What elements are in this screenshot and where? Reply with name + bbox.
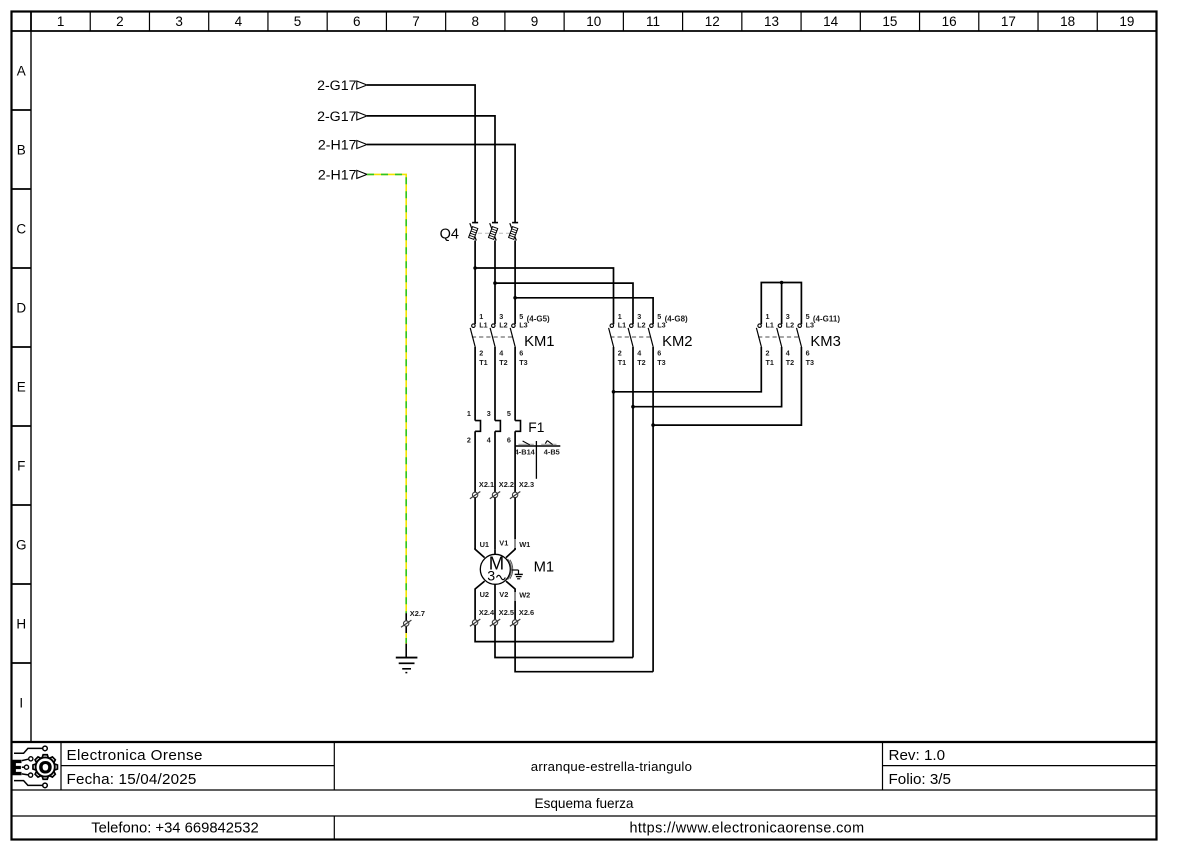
- svg-text:3: 3: [487, 409, 491, 418]
- svg-text:U1: U1: [480, 540, 489, 549]
- wire terminal X2.2 to motor: [494, 498, 496, 550]
- KM1 pin labels 5 L3: [519, 312, 527, 330]
- svg-text:14: 14: [823, 14, 839, 29]
- wire terminal X2.3 to motor: [514, 498, 516, 550]
- svg-text:T2: T2: [499, 358, 507, 367]
- svg-text:17: 17: [1001, 14, 1016, 29]
- svg-text:4: 4: [786, 349, 790, 358]
- svg-text:T1: T1: [479, 358, 487, 367]
- svg-text:arranque-estrella-triangulo: arranque-estrella-triangulo: [531, 759, 692, 774]
- KM1 pole 2 contact (pins 3/L2-4/T2): [490, 324, 495, 347]
- svg-text:F: F: [17, 458, 25, 473]
- title block frame: [12, 742, 1157, 840]
- KM1 pole 1 contact (pins 1/L1-2/T1): [470, 324, 475, 347]
- svg-text:V2: V2: [499, 590, 508, 599]
- wire KM1 pole 2 output to F1: [494, 347, 496, 421]
- wire 2-H17 to Q4 pole 3: [367, 145, 515, 223]
- svg-text:X2.4: X2.4: [479, 608, 495, 617]
- KM3 pin labels 2 T1: [766, 349, 774, 368]
- wire motor terminal V1: [494, 549, 496, 554]
- svg-text:T2: T2: [637, 358, 645, 367]
- svg-text:16: 16: [942, 14, 957, 29]
- svg-text:12: 12: [705, 14, 720, 29]
- wire gray stub W1: [514, 539, 516, 548]
- terminal X2.5: [490, 608, 514, 626]
- svg-text:E: E: [17, 379, 26, 394]
- svg-text:L1: L1: [618, 320, 626, 329]
- svg-text:X2.6: X2.6: [519, 608, 534, 617]
- motor PE double arc: [508, 559, 513, 580]
- terminal X2.2: [490, 480, 514, 499]
- svg-text:10: 10: [586, 14, 601, 29]
- svg-text:C: C: [16, 221, 26, 236]
- KM2 pole 3 contact (pins 5/L3-6/T3): [648, 324, 653, 347]
- svg-text:T3: T3: [806, 358, 814, 367]
- KM2 pole 2 contact (pins 3/L2-4/T2): [628, 324, 633, 347]
- KM3 pin labels 6 T3: [806, 349, 814, 368]
- svg-text:KM2: KM2: [662, 334, 692, 350]
- svg-text:9: 9: [531, 14, 539, 29]
- svg-text:L2: L2: [786, 320, 794, 329]
- svg-text:19: 19: [1119, 14, 1134, 29]
- svg-text:6: 6: [519, 349, 523, 358]
- svg-text:X2.5: X2.5: [499, 608, 514, 617]
- svg-text:T1: T1: [766, 358, 774, 367]
- motor PE earth symbol: [512, 570, 523, 579]
- svg-text:F1: F1: [528, 420, 544, 435]
- svg-text:T3: T3: [657, 358, 665, 367]
- KM2 pin labels 4 T2: [637, 349, 645, 368]
- connector reference 2-G17 (phase L2): [317, 109, 367, 125]
- svg-text:X2.1: X2.1: [479, 480, 494, 489]
- thermal overload relay F1: [467, 409, 560, 479]
- KM3 pin labels 4 T2: [786, 349, 794, 368]
- wire motor terminal V2: [494, 584, 496, 620]
- svg-text:B: B: [17, 142, 26, 157]
- wire terminal X2.4 to KM2/KM3 pole 1: [475, 625, 613, 641]
- svg-text:L2: L2: [499, 320, 507, 329]
- KM1 pin labels 1 L1: [479, 312, 487, 330]
- svg-text:V1: V1: [499, 539, 508, 548]
- motor M1 (3-phase): [480, 553, 554, 585]
- Q4 pole 2 contact: [488, 223, 498, 241]
- KM2 mechanical linkage (dashed): [610, 336, 650, 338]
- terminal X2.6: [510, 608, 534, 626]
- svg-text:4: 4: [499, 349, 503, 358]
- wire KM3 pole 2 to bridge: [781, 283, 783, 325]
- svg-text:7: 7: [412, 14, 420, 29]
- contactor KM1 (3-pole): [470, 312, 554, 367]
- wire KM2 pole 2 output: [632, 347, 634, 658]
- F1 heater element pole 1 (pins 1-2): [475, 421, 480, 432]
- wire F1 pole 1 to terminal X2.1: [474, 431, 476, 492]
- svg-text:5: 5: [294, 14, 302, 29]
- KM1 pin labels 4 T2: [499, 349, 507, 368]
- svg-text:6: 6: [353, 14, 361, 29]
- terminal X2.4: [470, 608, 495, 626]
- svg-text:2-H17: 2-H17: [318, 168, 357, 184]
- wire motor terminal W2: [506, 581, 515, 620]
- svg-text:KM1: KM1: [524, 334, 554, 350]
- wire branch phase L3 to KM2 pole 3: [515, 298, 653, 324]
- svg-text:4: 4: [235, 14, 243, 29]
- svg-text:T3: T3: [519, 358, 527, 367]
- circuit breaker Q4 (3-pole motor protection): [440, 223, 518, 325]
- svg-text:8: 8: [472, 14, 480, 29]
- svg-text:Rev: 1.0: Rev: 1.0: [889, 747, 946, 764]
- KM2 pin labels 1 L1: [618, 312, 626, 330]
- KM3 pole 1 contact (pins 1/L1-2/T1): [756, 324, 761, 347]
- KM1 pin labels 2 T1: [479, 349, 487, 368]
- connector reference 2-H17 (PE): [318, 168, 367, 184]
- svg-text:4-B5: 4-B5: [544, 448, 560, 457]
- svg-text:X2.7: X2.7: [410, 609, 425, 618]
- node junction phase L1 below Q4: [473, 266, 477, 270]
- svg-text:W2: W2: [519, 591, 530, 600]
- svg-text:Esquema fuerza: Esquema fuerza: [535, 796, 634, 811]
- svg-text:Folio: 3/5: Folio: 3/5: [889, 771, 951, 788]
- KM2 pin labels 3 L2: [637, 312, 645, 330]
- F1 aux contact glyph 4-B5: [541, 441, 556, 445]
- svg-text:L1: L1: [479, 320, 487, 329]
- terminal X2.1: [470, 480, 494, 499]
- KM3 pole 2 contact (pins 3/L2-4/T2): [777, 324, 782, 347]
- wire terminal X2.1 to motor: [474, 498, 476, 550]
- wire terminal X2.6 to KM2/KM3 pole 3: [515, 625, 653, 672]
- wire gray stub W2: [514, 592, 516, 601]
- wire KM3 star-point bridge: [761, 283, 801, 325]
- svg-text:2: 2: [618, 349, 622, 358]
- svg-text:1: 1: [467, 409, 471, 418]
- wire motor terminal U1: [475, 548, 485, 557]
- terminal X2.3: [510, 480, 534, 499]
- svg-text:3: 3: [175, 14, 183, 29]
- wire PE green/yellow from 2-H17 down to terminal X2.7: [367, 174, 406, 613]
- wire Q4 pole 3 output: [514, 241, 516, 325]
- svg-text:18: 18: [1060, 14, 1075, 29]
- node junction phase L2 below Q4: [493, 281, 497, 285]
- svg-text:H: H: [16, 616, 26, 631]
- svg-text:(4-G11): (4-G11): [813, 314, 840, 323]
- node junction KM2/KM3 pole 1: [612, 390, 616, 394]
- motor stator circle: [480, 554, 510, 584]
- KM2 pin labels 6 T3: [657, 349, 665, 368]
- svg-text:X2.2: X2.2: [499, 480, 514, 489]
- svg-text:15: 15: [882, 14, 897, 29]
- svg-text:A: A: [17, 63, 26, 78]
- wire F1 pole 2 to terminal X2.2: [494, 431, 496, 492]
- svg-text:D: D: [16, 300, 26, 315]
- wire 2-G17 to Q4 pole 1: [367, 85, 475, 223]
- wire Q4 pole 1 output: [474, 241, 476, 325]
- svg-text:W1: W1: [519, 540, 530, 549]
- KM3 pin labels 5 L3: [806, 312, 814, 330]
- node junction KM3 star point: [780, 281, 784, 285]
- ground symbol (earth): [396, 658, 418, 673]
- node junction phase L3 below Q4: [513, 296, 517, 300]
- svg-text:M1: M1: [534, 559, 555, 575]
- svg-text:L1: L1: [766, 320, 774, 329]
- KM1 mechanical linkage (dashed): [472, 336, 513, 338]
- wire terminal X2.5 to KM2/KM3 pole 2: [495, 625, 633, 657]
- KM2 pole 1 contact (pins 1/L1-2/T1): [609, 324, 614, 347]
- wire link to KM3 pole 1: [614, 347, 762, 392]
- contactor KM3 (3-pole): [756, 312, 840, 367]
- F1 heater element pole 2 (pins 3-4): [495, 421, 500, 432]
- Q4 pole 1 contact: [469, 223, 479, 241]
- svg-text:2: 2: [479, 349, 483, 358]
- wire KM2 pole 1 output: [613, 347, 615, 642]
- motor 3~ label: [487, 569, 505, 585]
- svg-text:3: 3: [487, 569, 495, 585]
- wire KM2 pole 3 output: [652, 347, 654, 672]
- svg-text:(4-G5): (4-G5): [527, 314, 550, 323]
- node junction KM2/KM3 pole 2: [631, 405, 635, 409]
- svg-text:4: 4: [487, 436, 491, 445]
- svg-text:2-H17: 2-H17: [318, 138, 357, 154]
- contactor KM2 (3-pole): [609, 312, 693, 367]
- Q4 pole 3 contact: [509, 223, 519, 241]
- F1 trip bar: [515, 445, 561, 447]
- wire PE terminal section: [405, 613, 407, 657]
- svg-text:13: 13: [764, 14, 779, 29]
- svg-text:6: 6: [507, 436, 511, 445]
- node junction KM2/KM3 pole 3: [651, 423, 655, 427]
- wire motor terminal U2: [475, 581, 485, 620]
- KM3 pole 3 contact (pins 5/L3-6/T3): [797, 324, 802, 347]
- connector reference 2-H17 (phase L3): [318, 138, 367, 154]
- svg-text:O: O: [39, 759, 52, 777]
- svg-text:6: 6: [806, 349, 810, 358]
- svg-text:Electronica Orense: Electronica Orense: [67, 747, 203, 764]
- svg-text:Q4: Q4: [440, 226, 459, 242]
- svg-text:U2: U2: [480, 590, 489, 599]
- svg-text:https://www.electronicaorense.: https://www.electronicaorense.com: [630, 821, 865, 837]
- company logo (E + gear O): [12, 746, 58, 788]
- svg-text:2-G17: 2-G17: [317, 109, 357, 125]
- wire KM1 pole 1 output to F1: [474, 347, 476, 421]
- wire link to KM3 pole 2: [633, 347, 782, 407]
- KM2 pin labels 5 L3: [657, 312, 665, 330]
- svg-text:4: 4: [637, 349, 641, 358]
- wire 2-G17 to Q4 pole 2: [367, 116, 495, 223]
- wire motor terminal W1: [506, 548, 515, 557]
- svg-text:11: 11: [646, 14, 660, 29]
- KM3 pin labels 3 L2: [786, 312, 794, 330]
- svg-text:T1: T1: [618, 358, 626, 367]
- svg-text:Telefono: +34 669842532: Telefono: +34 669842532: [91, 821, 258, 837]
- svg-text:5: 5: [507, 409, 511, 418]
- wire link to KM3 pole 3: [653, 347, 801, 425]
- svg-text:G: G: [16, 537, 27, 552]
- svg-text:2: 2: [116, 14, 124, 29]
- svg-text:KM3: KM3: [810, 334, 840, 350]
- svg-text:(4-G8): (4-G8): [665, 314, 688, 323]
- svg-text:1: 1: [57, 14, 65, 29]
- svg-text:Fecha: 15/04/2025: Fecha: 15/04/2025: [67, 771, 197, 788]
- svg-text:I: I: [19, 695, 23, 710]
- svg-text:2: 2: [766, 349, 770, 358]
- KM3 pin labels 1 L1: [766, 312, 774, 330]
- KM3 mechanical linkage (dashed): [758, 336, 799, 338]
- svg-text:4-B14: 4-B14: [515, 448, 536, 457]
- svg-text:2: 2: [467, 436, 471, 445]
- wire KM1 pole 3 output to F1: [514, 347, 516, 421]
- svg-text:T2: T2: [786, 358, 794, 367]
- F1 trip linkage line: [535, 446, 537, 479]
- Q4 mechanical linkage (dashed): [478, 232, 511, 234]
- F1 heater element pole 3 (pins 5-6): [515, 421, 520, 432]
- KM1 pin labels 6 T3: [519, 349, 527, 368]
- KM1 pole 3 contact (pins 5/L3-6/T3): [510, 324, 515, 347]
- KM1 pin labels 3 L2: [499, 312, 507, 330]
- svg-text:L2: L2: [637, 320, 645, 329]
- terminal X2.7: [401, 609, 425, 627]
- F1 aux contact glyph 4-B14: [518, 441, 533, 445]
- wire Q4 pole 2 output: [494, 241, 496, 325]
- wire branch phase L2 to KM2 pole 2: [495, 283, 633, 324]
- svg-text:6: 6: [657, 349, 661, 358]
- KM2 pin labels 2 T1: [618, 349, 626, 368]
- connector reference 2-G17 (phase L1): [317, 78, 367, 94]
- svg-text:2-G17: 2-G17: [317, 78, 357, 94]
- wire branch phase L1 to KM2 pole 1: [475, 268, 613, 324]
- wire F1 pole 3 to terminal X2.3: [514, 431, 516, 492]
- svg-text:X2.3: X2.3: [519, 480, 534, 489]
